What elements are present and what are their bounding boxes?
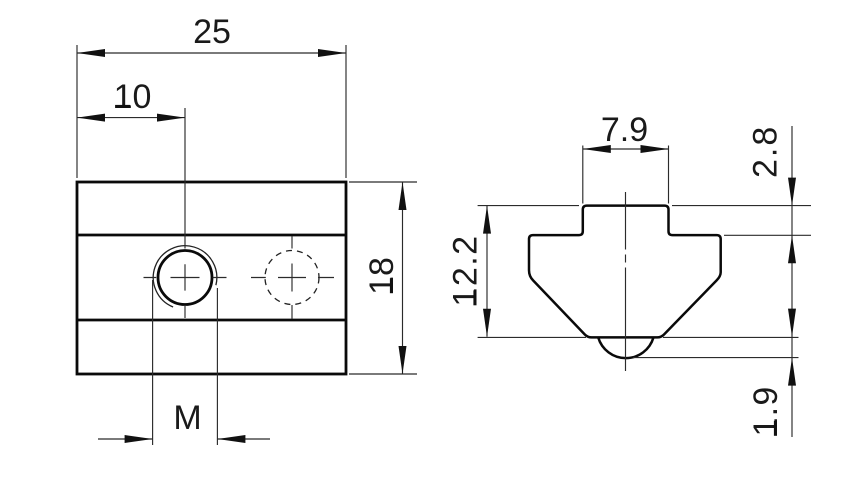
svg-text:18: 18 [363, 257, 401, 295]
dimension M: right dimension line [217, 438, 270, 440]
svg-text:25: 25 [193, 13, 231, 51]
dimension M: extension line left [152, 280, 154, 445]
threaded hole: thread crest arc [153, 246, 217, 307]
dimension 18: bottom arrowhead [399, 346, 407, 374]
dimension 2.8: upper arrowhead (down) [788, 178, 796, 206]
dimension M: extension line right [216, 288, 218, 445]
extension line: shoulder top to right [724, 234, 811, 236]
dimension 2.8 and 1.9: shared vertical dimension line [791, 126, 793, 437]
svg-text:10: 10 [114, 78, 152, 116]
hidden hole: dashed circle [265, 251, 319, 305]
hidden hole: horizontal centerline [251, 277, 334, 279]
svg-text:M: M [173, 399, 201, 437]
dimension 10: dimension line [77, 117, 185, 119]
extension line: bottom flat to right [663, 336, 799, 338]
dimension 18: top arrowhead [399, 182, 407, 210]
threaded hole: vertical centerline [184, 108, 186, 318]
dimension 12.2: label [447, 234, 485, 306]
dimension 7.9: right arrowhead [641, 145, 669, 153]
left view: upper groove line [77, 234, 346, 237]
threaded hole: tap circle [158, 251, 212, 305]
dimension 7.9: left arrowhead [583, 145, 611, 153]
dimension M: left dimension line [98, 438, 153, 440]
dimension 7.9: extension line right [668, 146, 670, 204]
dimension 18: label [363, 257, 401, 295]
svg-text:1.9: 1.9 [747, 386, 785, 437]
svg-text:12.2: 12.2 [447, 234, 485, 306]
dimension 2.8: label [747, 125, 785, 178]
dimension 7.9: extension line left [582, 146, 584, 204]
dimension 25: extension line left [76, 45, 78, 178]
extension line: bump bottom to right [633, 357, 799, 359]
hidden hole: vertical centerline [291, 236, 293, 319]
dimension 2.8: lower arrowhead (up) [788, 235, 796, 263]
right view: T-nut profile outline [529, 206, 721, 338]
dimension 1.9: upper arrowhead (down) [788, 309, 796, 337]
dimension 18: extension line bottom [349, 373, 417, 375]
dimension M: right arrowhead [217, 435, 245, 443]
dimension 7.9: dimension line [583, 148, 669, 150]
extension line: tab top to right [672, 205, 811, 207]
dimension 12.2: dimension line [486, 206, 488, 337]
dimension M: left arrowhead [125, 435, 153, 443]
dimension 1.9: lower arrowhead (up) [788, 358, 796, 386]
right view: spring-ball bump arc [598, 337, 653, 358]
dimension 12.2: top arrowhead [483, 206, 491, 234]
dimension 10: left arrowhead [77, 114, 105, 122]
dimension 25: right arrowhead [318, 49, 346, 57]
extension line: tab top to left [478, 205, 579, 207]
extension line: bottom flat to left [478, 336, 586, 338]
dimension 1.9: label [747, 386, 785, 437]
svg-text:2.8: 2.8 [747, 125, 785, 178]
dimension 25: dimension line [77, 52, 346, 54]
dimension 18: extension line top [349, 181, 417, 183]
dimension 25: left arrowhead [77, 49, 105, 57]
dimension 12.2: bottom arrowhead [483, 309, 491, 337]
threaded hole: horizontal centerline [144, 277, 227, 279]
right view: vertical centerline [625, 192, 627, 371]
left view: nut body outline [77, 182, 346, 374]
svg-text:7.9: 7.9 [601, 111, 648, 149]
dimension 25: extension line right [345, 45, 347, 178]
dimension 10: right arrowhead [157, 114, 185, 122]
left view: lower groove line [77, 319, 346, 322]
dimension 18: dimension line [402, 182, 404, 374]
